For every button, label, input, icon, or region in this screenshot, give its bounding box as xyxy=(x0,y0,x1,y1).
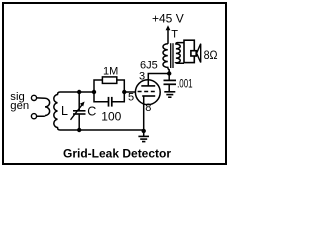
tube V1 envelope xyxy=(135,80,160,105)
wire link coil to bottom terminal xyxy=(37,115,45,118)
speaker LS1 horn xyxy=(197,44,201,63)
wire grid lead xyxy=(124,91,135,93)
node grid network right xyxy=(122,90,126,94)
ground (cathode) xyxy=(143,131,145,136)
border frame xyxy=(3,3,226,164)
wire cathode lead xyxy=(143,96,145,131)
node tank bottom / C bottom xyxy=(77,128,81,132)
tube cathode xyxy=(142,95,155,97)
terminal top xyxy=(31,95,36,100)
svg-text:8: 8 xyxy=(145,102,151,114)
node grid network left xyxy=(92,90,96,94)
resistor R 1M leads xyxy=(94,80,124,92)
svg-text:1M: 1M xyxy=(103,66,118,78)
svg-text:8Ω: 8Ω xyxy=(204,48,218,62)
svg-text:T: T xyxy=(171,29,178,41)
svg-text:gen: gen xyxy=(10,100,29,112)
svg-text:L: L xyxy=(61,104,68,118)
wire plate lead xyxy=(148,74,169,86)
svg-text:.001: .001 xyxy=(177,77,193,91)
capacitor C (variable) xyxy=(78,92,80,110)
svg-text:+45 V: +45 V xyxy=(152,11,184,25)
link coil winding xyxy=(45,98,50,115)
svg-text:100: 100 xyxy=(101,109,121,123)
svg-text:C: C xyxy=(87,104,96,118)
tube grid (dashed) xyxy=(138,91,157,93)
ground (bypass) xyxy=(164,91,175,93)
wire bottom rail xyxy=(60,129,143,131)
speaker LS1 driver xyxy=(191,51,196,56)
node tank top / C top xyxy=(77,90,81,94)
terminal bottom xyxy=(31,114,36,119)
speaker LS1 box xyxy=(184,40,194,62)
tube plate xyxy=(141,85,155,87)
svg-text:3: 3 xyxy=(139,70,145,82)
transformer T core xyxy=(170,43,172,68)
transformer T secondary xyxy=(176,43,184,64)
capacitor 100 plates xyxy=(108,97,110,107)
capacitor 100 leads xyxy=(94,92,124,102)
resistor R 1M body xyxy=(102,77,116,84)
node plate / bypass xyxy=(167,71,171,75)
capacitor .001 xyxy=(168,74,170,81)
wire B+ arrow xyxy=(167,30,169,44)
wire top terminal to link coil xyxy=(37,97,45,99)
wire top rail xyxy=(60,91,94,93)
node cathode ground xyxy=(142,129,146,133)
svg-text:Grid-Leak Detector: Grid-Leak Detector xyxy=(63,147,171,161)
coil L winding xyxy=(54,92,60,130)
transformer T primary xyxy=(163,44,169,74)
svg-text:5: 5 xyxy=(128,91,134,103)
